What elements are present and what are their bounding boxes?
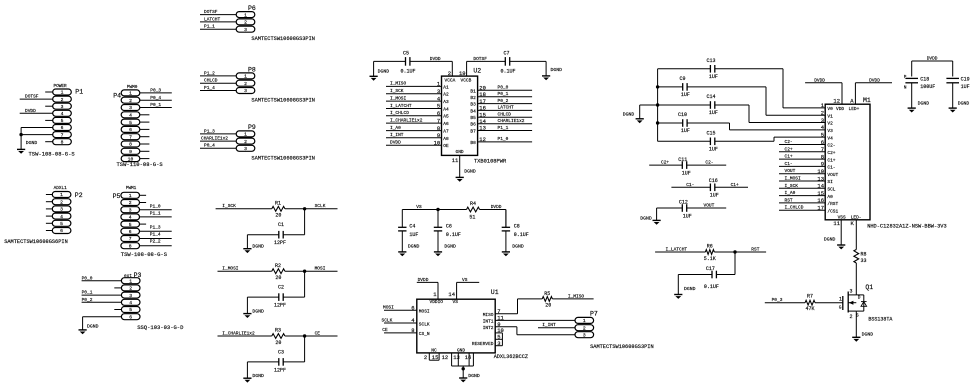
svg-text:1UF: 1UF: [709, 74, 718, 80]
svg-text:R1: R1: [275, 200, 281, 206]
node DVDD right of R4: [480, 204, 506, 210]
svg-text:LATCHT: LATCHT: [204, 16, 221, 22]
wire P5 pin2 stub: [140, 202, 147, 204]
svg-text:A6: A6: [443, 121, 449, 127]
svg-text:V4: V4: [827, 135, 833, 141]
svg-text:5: 5: [61, 118, 64, 124]
ground C5: [370, 69, 390, 81]
wire U1 ground: [462, 366, 464, 378]
svg-text:V1: V1: [827, 113, 833, 119]
wire U2 pin11 GND: [452, 155, 460, 177]
node DVDD at P1 pin4: [20, 108, 53, 114]
capacitor C14: [658, 94, 718, 116]
ground C3: [243, 373, 264, 383]
svg-text:SCLK: SCLK: [315, 203, 326, 209]
svg-text:C2-: C2-: [785, 139, 793, 145]
svg-text:11: 11: [452, 157, 459, 164]
svg-text:B5: B5: [470, 115, 476, 121]
ground C18: [908, 101, 930, 113]
svg-text:/CS1: /CS1: [827, 208, 838, 214]
wire C6 top: [437, 210, 439, 228]
capacitor C7: [501, 51, 516, 75]
wire P2 pin6 stub: [46, 230, 52, 232]
svg-text:LATCHT: LATCHT: [498, 105, 515, 111]
svg-text:P: P: [904, 74, 907, 80]
svg-text:R4: R4: [470, 201, 476, 207]
svg-text:C14: C14: [707, 94, 716, 100]
node CE at U1 pin8: [382, 327, 430, 337]
capacitor C6: [434, 223, 461, 238]
wire C5 to ground: [374, 61, 406, 76]
node C1+ at M1: [779, 154, 825, 160]
wire C8 top: [505, 210, 507, 228]
svg-text:0.1UF: 0.1UF: [704, 284, 719, 290]
svg-text:C11: C11: [678, 157, 687, 163]
svg-text:6: 6: [129, 127, 132, 133]
svg-text:2: 2: [448, 70, 451, 77]
svg-text:CHLCD: CHLCD: [498, 112, 512, 118]
svg-text:B6: B6: [470, 122, 476, 128]
wire P4 pin4 stub: [140, 114, 150, 116]
node P1_4 at P8 pin3: [200, 85, 236, 91]
svg-text:DVDD: DVDD: [430, 56, 441, 62]
svg-text:12: 12: [833, 98, 840, 105]
wire P1 pin3 stub: [45, 105, 53, 107]
svg-text:P1_1: P1_1: [498, 125, 509, 131]
svg-text:C16: C16: [709, 178, 718, 184]
svg-text:3: 3: [129, 293, 132, 299]
svg-text:C15: C15: [707, 131, 716, 137]
node I_MISO at U2 pin1 (A1): [386, 81, 449, 91]
svg-text:C2-: C2-: [827, 143, 835, 149]
svg-text:C19: C19: [961, 77, 970, 83]
wire U2 pin19 VCCB: [459, 56, 505, 77]
wire P1 pin8 stub: [45, 141, 53, 143]
node P0_1 at P3 pin3: [82, 290, 122, 296]
junction R3 output: [303, 334, 306, 337]
svg-text:ADXL362BCCZ: ADXL362BCCZ: [494, 354, 528, 360]
wire C17 to ground: [678, 275, 712, 295]
svg-text:11: 11: [833, 220, 840, 227]
svg-text:P5: P5: [113, 193, 121, 200]
svg-text:P1: P1: [75, 89, 83, 96]
svg-text:SI: SI: [827, 179, 833, 185]
svg-text:2: 2: [583, 325, 586, 331]
wire DGND bus: [657, 69, 659, 142]
node VS at U1 pin14: [448, 277, 479, 305]
pin M1 3 (V2): [821, 117, 833, 127]
svg-text:P0_3: P0_3: [772, 297, 783, 303]
svg-text:33: 33: [861, 258, 867, 264]
node VOUT at M1: [779, 168, 825, 174]
svg-text:C18: C18: [920, 77, 929, 83]
svg-text:1UF: 1UF: [709, 147, 718, 153]
capacitor C1: [274, 222, 286, 246]
wire C14 to M1 pin3: [715, 105, 825, 123]
svg-text:LED+: LED+: [849, 106, 860, 112]
svg-text:R2: R2: [275, 263, 281, 269]
svg-text:5: 5: [129, 222, 132, 228]
svg-text:2: 2: [129, 98, 132, 104]
svg-text:8: 8: [437, 125, 440, 132]
svg-text:R6: R6: [707, 244, 713, 250]
svg-text:LED-: LED-: [851, 214, 862, 220]
pin M1 9 (C1-): [821, 161, 836, 171]
junction R6 C17: [733, 250, 736, 253]
wire VS rail: [402, 204, 466, 210]
svg-text:P1_1: P1_1: [204, 24, 215, 30]
wire M1 VSS pin11: [833, 214, 846, 245]
svg-text:P0_1: P0_1: [150, 102, 161, 108]
svg-text:P0_2: P0_2: [82, 297, 93, 303]
svg-text:DVDD: DVDD: [418, 277, 429, 283]
svg-text:1: 1: [129, 91, 132, 97]
svg-text:2: 2: [424, 354, 427, 361]
svg-text:I_SCK: I_SCK: [222, 203, 236, 209]
svg-text:INT1: INT1: [483, 319, 494, 325]
node SCLK at U1 pin4: [382, 317, 430, 327]
svg-text:SAMTECTSW10608GS3PIN: SAMTECTSW10608GS3PIN: [251, 155, 315, 161]
svg-text:1: 1: [129, 278, 132, 284]
svg-text:CHARLIE1x2: CHARLIE1x2: [201, 136, 228, 142]
wire C3 to ground: [247, 362, 278, 378]
svg-text:3: 3: [60, 207, 63, 213]
node P0_0 at P3 pin1: [82, 275, 122, 281]
svg-text:DVDD: DVDD: [25, 108, 36, 114]
capacitor C15: [658, 131, 718, 153]
svg-text:10: 10: [128, 156, 134, 162]
svg-text:SCLK: SCLK: [382, 317, 393, 323]
svg-text:3: 3: [437, 88, 440, 95]
svg-text:A8: A8: [443, 136, 449, 142]
svg-text:0.1UF: 0.1UF: [514, 232, 529, 238]
pin M1 13 (SI): [817, 175, 833, 185]
svg-text:4: 4: [60, 214, 63, 220]
svg-text:VOUT: VOUT: [785, 168, 796, 174]
wire P3 pin5 stub: [114, 309, 121, 311]
wire P5 pin1 stub: [140, 194, 147, 196]
node P1_1 at P6 pin3: [200, 24, 236, 30]
node DOTSF at P6 pin1: [200, 9, 236, 15]
svg-text:3: 3: [244, 27, 247, 33]
connector P7 header: [575, 311, 598, 339]
resistor R2: [272, 263, 285, 281]
svg-text:P0_3: P0_3: [150, 88, 161, 94]
svg-text:GND: GND: [456, 149, 464, 155]
node I_CHLCD at M1: [779, 205, 825, 211]
svg-text:ADXL1: ADXL1: [54, 186, 68, 191]
svg-text:DGND: DGND: [378, 69, 390, 75]
svg-text:1: 1: [244, 12, 247, 18]
svg-text:I_SCK: I_SCK: [390, 88, 404, 94]
svg-text:0.1UF: 0.1UF: [501, 69, 516, 75]
svg-text:CE: CE: [315, 330, 321, 336]
svg-text:DGND: DGND: [252, 308, 264, 314]
junction U1 ground: [462, 367, 465, 370]
node MOSI: [315, 266, 326, 272]
wire P3 pin6 to ground: [83, 317, 122, 330]
wire LED- to R8: [855, 249, 857, 251]
ground C6: [434, 243, 456, 256]
svg-text:PWM0: PWM0: [127, 85, 138, 90]
svg-text:15: 15: [432, 354, 439, 361]
svg-text:VCCA: VCCA: [445, 77, 456, 83]
svg-text:12PF: 12PF: [274, 240, 286, 246]
node I_LATCHT input: [655, 247, 705, 253]
svg-text:P1_4: P1_4: [204, 85, 215, 91]
wire P1 pin1 stub: [45, 91, 53, 93]
node I_SCK input wire: [216, 203, 272, 209]
pin M1 16 (/RST): [817, 197, 838, 207]
svg-text:POWER: POWER: [54, 84, 68, 89]
node DVDD at U1 pin1: [417, 277, 444, 305]
svg-text:Q1: Q1: [865, 284, 873, 291]
svg-text:12: 12: [479, 136, 486, 143]
svg-text:P2_2: P2_2: [150, 239, 161, 245]
svg-text:C12: C12: [679, 199, 688, 205]
label P9 part number: [251, 155, 315, 161]
svg-text:SAMTECTSW10608GS6PIN: SAMTECTSW10608GS6PIN: [4, 239, 68, 245]
svg-text:DGND: DGND: [252, 244, 264, 250]
svg-text:R7: R7: [807, 294, 813, 300]
node I_SCK at U2 pin3 (A2): [386, 88, 449, 98]
junction C6 tap: [436, 208, 439, 211]
svg-text:P1_3: P1_3: [150, 225, 161, 231]
svg-text:7: 7: [129, 134, 132, 140]
svg-text:VS: VS: [462, 277, 468, 283]
svg-text:DGND: DGND: [252, 373, 264, 379]
svg-text:2: 2: [244, 20, 247, 26]
svg-text:OE: OE: [443, 143, 449, 149]
svg-text:3: 3: [61, 104, 64, 110]
node I_MOSI at U2 pin4 (A3): [386, 95, 449, 105]
ground C2: [243, 308, 264, 318]
svg-text:TXB0108PWR: TXB0108PWR: [474, 158, 507, 164]
wire P1 pin6 to ground: [21, 127, 53, 129]
pin M1 1 (V0): [821, 102, 833, 112]
junction R2 output: [303, 270, 306, 273]
svg-text:D: D: [858, 294, 861, 300]
svg-text:I_A0: I_A0: [785, 190, 796, 196]
svg-text:7: 7: [61, 132, 64, 138]
node CHLCD at U2 pin15 (B5): [470, 111, 532, 121]
svg-text:DGND: DGND: [684, 286, 696, 292]
ground Q1: [852, 331, 873, 341]
svg-text:1: 1: [583, 318, 586, 324]
svg-text:I_INT: I_INT: [390, 132, 404, 138]
ground C8: [502, 243, 524, 256]
svg-text:C2+: C2+: [661, 160, 669, 166]
svg-text:B7: B7: [470, 129, 476, 135]
svg-text:P2: P2: [75, 192, 83, 199]
node I_CHARLIE1x2 input wire: [218, 330, 272, 336]
svg-text:13: 13: [453, 354, 460, 361]
ground U2: [456, 169, 476, 182]
wire C1 top: [283, 209, 304, 235]
svg-text:I_MOSI: I_MOSI: [390, 95, 407, 101]
wire C4 top: [401, 210, 403, 228]
svg-text:SAMTECTSW10608GS3PIN: SAMTECTSW10608GS3PIN: [251, 98, 315, 104]
svg-text:C1-: C1-: [686, 182, 694, 188]
capacitor C9: [658, 76, 690, 98]
svg-text:C5: C5: [403, 51, 409, 57]
svg-text:CE: CE: [382, 327, 388, 333]
svg-text:12: 12: [442, 354, 449, 361]
svg-text:6: 6: [129, 314, 132, 320]
junction bus C14: [656, 103, 659, 106]
pin M1 14 (SCL): [817, 183, 835, 193]
wire R3 output: [285, 335, 338, 337]
svg-text:V2: V2: [827, 121, 833, 127]
node DVDD at M1 pin A LED+: [849, 77, 893, 112]
wire U1 INT1 pin11 to P7 pin1: [483, 315, 576, 325]
svg-text:DVDD: DVDD: [491, 204, 502, 210]
wire C2 top: [283, 271, 304, 297]
ground P3: [79, 324, 99, 335]
svg-text:I_MOSI: I_MOSI: [222, 266, 239, 272]
wire P5 pin5 stub: [140, 223, 147, 225]
svg-text:P1_2: P1_2: [204, 70, 215, 76]
svg-text:I_CHLCD: I_CHLCD: [785, 205, 804, 211]
svg-text:VCCB: VCCB: [461, 77, 472, 83]
svg-text:1UF: 1UF: [961, 84, 970, 90]
node CHARLIE1x2 at P9 pin2: [200, 136, 236, 142]
pin M1 2 (V1): [821, 110, 833, 120]
svg-text:DVDD: DVDD: [927, 56, 938, 62]
svg-text:P9: P9: [248, 124, 256, 131]
capacitor C12: [657, 199, 727, 219]
capacitor C16: [671, 178, 748, 199]
wire bus DGND tap: [640, 105, 658, 119]
svg-text:6: 6: [129, 229, 132, 235]
wire U1 INT2 pin9 to P7 pin3: [483, 321, 576, 335]
svg-text:P1_0: P1_0: [150, 204, 161, 210]
svg-text:U1: U1: [491, 289, 499, 296]
svg-text:3: 3: [244, 88, 247, 94]
node C1- at M1: [779, 161, 825, 167]
svg-text:INT2: INT2: [483, 325, 494, 331]
svg-text:C9: C9: [680, 76, 686, 82]
resistor R1: [272, 200, 285, 218]
svg-text:CHARLIE1x2: CHARLIE1x2: [498, 118, 525, 124]
svg-text:10: 10: [434, 139, 441, 146]
svg-text:DVDD: DVDD: [869, 77, 880, 83]
wire P4 pin5 stub: [140, 121, 150, 123]
node CHARLIE1x2 at U2 pin14 (B6): [470, 118, 532, 128]
display M1 box: [825, 97, 946, 229]
node P2_2 at P5 pin8: [140, 239, 172, 246]
svg-text:20: 20: [545, 303, 551, 309]
svg-text:12PF: 12PF: [274, 303, 286, 309]
node P0_0 at U2 pin20 (B1): [470, 85, 532, 95]
node I_A0 at M1: [779, 190, 825, 196]
wire P4 pin8 stub: [140, 143, 150, 145]
capacitor C13: [658, 58, 718, 80]
svg-text:3: 3: [244, 146, 247, 152]
ground P1: [17, 140, 37, 154]
svg-text:20: 20: [275, 340, 281, 346]
wire P2 pin3 stub: [46, 208, 52, 210]
ground C4: [398, 243, 419, 256]
wire C8 drop: [505, 210, 507, 228]
svg-text:I_SCK: I_SCK: [785, 183, 799, 189]
wire C9 to M1 pin2: [687, 87, 825, 115]
svg-text:M1: M1: [863, 97, 871, 104]
wire U1 reserved pins 10,5,3: [472, 327, 504, 347]
svg-text:1: 1: [61, 90, 64, 96]
svg-text:C2-: C2-: [705, 160, 713, 166]
svg-text:C2+: C2+: [827, 150, 835, 156]
svg-text:20: 20: [275, 213, 281, 219]
svg-text:SAMTECTSW10608GS3PIN: SAMTECTSW10608GS3PIN: [251, 36, 315, 42]
svg-text:PWM1: PWM1: [126, 186, 137, 191]
connector P6 header: [236, 5, 256, 33]
node DVDD at U2 pin10 (OE): [386, 139, 449, 149]
svg-text:A7: A7: [443, 129, 449, 135]
svg-text:2: 2: [60, 199, 63, 205]
svg-text:C1+: C1+: [827, 157, 835, 163]
svg-text:5: 5: [821, 131, 824, 138]
svg-text:SCL: SCL: [827, 187, 835, 193]
wire C4 bottom: [401, 231, 403, 252]
svg-text:VDD: VDD: [836, 106, 844, 112]
wire P1 pin5 stub: [45, 119, 53, 121]
svg-text:RST: RST: [751, 247, 759, 253]
svg-text:G: G: [839, 304, 842, 310]
wire P1 ground bus: [20, 128, 22, 150]
node P0_3 gate input: [765, 297, 805, 303]
svg-text:P1_0: P1_0: [498, 136, 509, 142]
svg-text:13: 13: [479, 125, 486, 132]
svg-text:P0_0: P0_0: [498, 85, 509, 91]
svg-text:DGND: DGND: [464, 169, 476, 175]
svg-text:A2: A2: [443, 92, 449, 98]
svg-text:MISO: MISO: [483, 312, 494, 318]
node P1_1 at U2 pin13 (B7): [470, 125, 532, 135]
resistor R8: [854, 250, 867, 265]
svg-text:C2: C2: [278, 285, 284, 291]
node P1_3 at P9 pin1: [200, 128, 236, 134]
svg-text:DGND: DGND: [408, 243, 420, 249]
junction bus C9: [656, 85, 659, 88]
svg-text:P4: P4: [113, 92, 121, 99]
pin M1 10 (VOUT): [817, 168, 838, 178]
ground U1: [459, 373, 480, 383]
wire R2 output: [285, 270, 338, 272]
wire Q1 source to ground: [855, 311, 857, 337]
svg-text:C1+: C1+: [785, 154, 793, 160]
junction bus C10: [656, 121, 659, 124]
svg-text:0.1UF: 0.1UF: [446, 232, 461, 238]
svg-text:4: 4: [129, 113, 132, 119]
wire R7 to gate: [815, 302, 843, 304]
wire C19 top: [952, 61, 954, 77]
node I_A0 at U2 pin8 (A7): [386, 125, 449, 135]
wire P4 pin7 stub: [140, 136, 150, 138]
svg-text:I_MISO: I_MISO: [568, 293, 585, 299]
svg-text:C3: C3: [278, 349, 284, 355]
svg-text:1UF: 1UF: [709, 110, 718, 116]
svg-text:VSS: VSS: [838, 214, 846, 220]
svg-text:VS: VS: [453, 299, 459, 305]
svg-text:DGND: DGND: [468, 373, 480, 379]
svg-text:2: 2: [244, 139, 247, 145]
svg-text:A3: A3: [443, 99, 449, 105]
node LATCHT at P6 pin2: [200, 16, 236, 22]
op-amp U1 box: [417, 289, 528, 360]
wire U2 pin2 VCCA: [410, 56, 453, 77]
node P0_2 at P3 pin4: [82, 297, 122, 303]
